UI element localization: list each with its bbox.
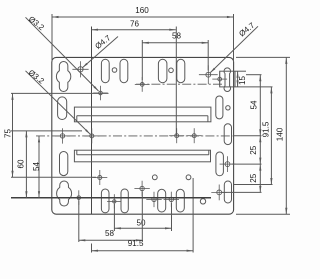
svg-text:58: 58 bbox=[172, 32, 182, 41]
svg-text:54: 54 bbox=[32, 162, 41, 172]
svg-text:75: 75 bbox=[4, 129, 13, 139]
svg-text:25: 25 bbox=[249, 173, 258, 183]
svg-text:25: 25 bbox=[249, 145, 258, 155]
svg-text:54: 54 bbox=[249, 100, 258, 110]
svg-text:91.5: 91.5 bbox=[261, 121, 270, 137]
svg-text:91.5: 91.5 bbox=[128, 239, 144, 248]
svg-text:50: 50 bbox=[136, 219, 146, 228]
svg-text:60: 60 bbox=[16, 159, 25, 169]
svg-text:160: 160 bbox=[135, 6, 149, 15]
svg-text:140: 140 bbox=[276, 127, 285, 141]
svg-text:58: 58 bbox=[105, 229, 115, 238]
svg-text:15: 15 bbox=[238, 76, 247, 86]
svg-text:76: 76 bbox=[130, 20, 140, 29]
